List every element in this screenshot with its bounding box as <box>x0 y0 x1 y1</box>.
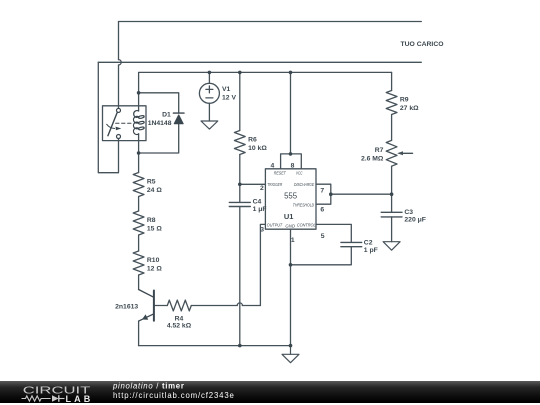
svg-text:15 Ω: 15 Ω <box>147 225 162 232</box>
label R8 value <box>147 217 162 233</box>
svg-text:GND: GND <box>285 224 295 229</box>
svg-text:TUO CARICO: TUO CARICO <box>400 41 443 48</box>
svg-text:10 kΩ: 10 kΩ <box>248 145 267 152</box>
svg-text:2.6 MΩ: 2.6 MΩ <box>361 156 384 163</box>
wire node to C3 <box>391 194 393 212</box>
wire C4 to bottom rail <box>239 207 241 346</box>
resistor R10 <box>133 251 144 275</box>
wire reset/vcc bracket <box>281 154 302 169</box>
svg-text:R6: R6 <box>248 136 257 143</box>
wire pin5 to C2 <box>316 224 351 242</box>
svg-text:7: 7 <box>320 187 324 194</box>
svg-text:R5: R5 <box>147 178 156 185</box>
resistor R4 <box>167 300 191 311</box>
label R5 value <box>147 178 162 194</box>
svg-text:220 μF: 220 μF <box>404 216 426 223</box>
footer banner <box>0 381 540 403</box>
wire top load line <box>119 21 422 23</box>
svg-text:pinolatino / timer: pinolatino / timer <box>112 381 185 390</box>
wire output pin3 riser <box>260 224 265 305</box>
svg-text:U1: U1 <box>284 212 294 221</box>
label C3 value <box>404 209 426 224</box>
wire VCC riser <box>290 72 292 153</box>
svg-text:R4: R4 <box>175 315 184 322</box>
svg-text:http://circuitlab.com/cf2343e: http://circuitlab.com/cf2343e <box>113 391 235 400</box>
label R9 value <box>400 96 419 112</box>
wire R8 to R10 <box>138 235 140 251</box>
svg-text:R7: R7 <box>375 147 384 154</box>
svg-text:1 pF: 1 pF <box>364 247 378 254</box>
transistor Q1 2n1613 <box>139 290 154 322</box>
potentiometer R7 <box>386 140 412 166</box>
wire R5 to R8 <box>138 197 140 212</box>
relay switch contacts <box>107 108 133 138</box>
ground for C3 <box>383 242 400 251</box>
label R10 value <box>147 257 162 273</box>
svg-text:12 Ω: 12 Ω <box>147 265 162 272</box>
svg-text:6: 6 <box>320 207 324 214</box>
wire base to R4 <box>154 305 167 307</box>
wire pin1 gnd column <box>290 229 292 345</box>
resistor R5 <box>133 173 144 197</box>
svg-text:1 μF: 1 μF <box>253 206 267 213</box>
wire R10 to collector <box>138 275 140 290</box>
wire R9 to R7 <box>391 115 393 141</box>
wire coil column through relay <box>138 93 140 173</box>
relay actuator arrowhead <box>116 127 122 131</box>
svg-text:1: 1 <box>291 237 295 244</box>
svg-text:LAB: LAB <box>66 394 94 403</box>
wire trigger node to C4 <box>239 184 241 202</box>
svg-text:2: 2 <box>260 185 264 192</box>
wire C2 to gnd column <box>291 247 352 265</box>
svg-text:4.52 kΩ: 4.52 kΩ <box>167 322 192 329</box>
label R4 value <box>167 315 192 329</box>
wire V1 branch <box>208 72 210 83</box>
wire left return loop <box>98 62 118 172</box>
wire emitter to bottom rail <box>138 321 140 346</box>
wire hop arc over C4 column <box>237 303 242 306</box>
svg-text:RESET: RESET <box>274 170 287 175</box>
wire R7 to node <box>391 166 393 194</box>
svg-text:D1: D1 <box>162 112 171 119</box>
wire diode bottom link <box>139 124 179 153</box>
wire +12V top rail <box>139 72 392 92</box>
transistor emitter arrowhead <box>142 314 148 319</box>
ground for V1 <box>201 121 218 129</box>
svg-text:4: 4 <box>271 163 275 170</box>
wire coil top to rail branch <box>139 93 179 113</box>
label U1 555 <box>284 191 298 220</box>
svg-text:R10: R10 <box>147 257 160 264</box>
svg-text:27 kΩ: 27 kΩ <box>400 105 419 112</box>
svg-text:C3: C3 <box>404 209 413 216</box>
label R7 value <box>361 147 384 163</box>
svg-text:R9: R9 <box>400 96 409 103</box>
wire switch top feed with hop over second line <box>118 22 120 109</box>
label C2 value <box>364 239 378 254</box>
svg-text:12 V: 12 V <box>222 95 236 102</box>
wire bottom ground rail <box>139 345 291 347</box>
CircuitLab logo diode glyph <box>52 395 59 402</box>
label C4 value <box>253 198 267 213</box>
svg-text:THRESHOLD: THRESHOLD <box>293 202 314 207</box>
node junction dots <box>137 71 394 348</box>
voltage source V1 <box>199 83 219 103</box>
svg-text:555: 555 <box>284 191 298 200</box>
wire V1 to ground <box>208 103 210 121</box>
resistor R8 <box>133 211 144 235</box>
wire C3 to ground <box>391 217 393 242</box>
wire R9 drop from rail <box>391 72 393 90</box>
relay coil L <box>133 111 144 135</box>
svg-text:3: 3 <box>260 227 264 234</box>
svg-text:VCC: VCC <box>296 170 303 175</box>
555 pin names <box>267 170 316 228</box>
wire hop arc <box>119 60 122 65</box>
relay K1 box <box>103 106 147 141</box>
resistor R6 <box>234 131 245 155</box>
ground main <box>282 346 299 363</box>
svg-text:V1: V1 <box>222 86 231 93</box>
svg-text:C4: C4 <box>253 198 262 205</box>
555 pin numbers <box>260 163 325 244</box>
resistor R9 <box>386 91 397 115</box>
op-amp U1 555 timer box <box>265 169 316 229</box>
capacitor C2 <box>341 242 362 246</box>
wire R6 branch from rail <box>239 72 241 130</box>
wire R4 to output column with hop <box>191 305 260 307</box>
svg-text:C2: C2 <box>364 239 373 246</box>
svg-text:24 Ω: 24 Ω <box>147 187 162 194</box>
svg-text:CONTROL: CONTROL <box>297 222 316 227</box>
capacitor C4 <box>229 202 250 206</box>
diode D1 <box>173 113 184 124</box>
svg-text:5: 5 <box>321 233 325 240</box>
potentiometer R7 wiper arrowhead <box>397 151 403 155</box>
wire R6 to trigger node <box>239 155 241 185</box>
wire pin7 pin6 join <box>316 184 331 204</box>
CircuitLab logo resistor glyph <box>22 396 51 401</box>
svg-text:TRIGGER: TRIGGER <box>267 182 282 187</box>
svg-text:1N4148: 1N4148 <box>148 120 172 127</box>
svg-text:2n1613: 2n1613 <box>115 303 138 310</box>
label R6 value <box>248 136 267 152</box>
svg-text:OUTPUT: OUTPUT <box>267 222 283 227</box>
wire threshold to R7 node <box>331 193 392 195</box>
svg-text:DISCHARGE: DISCHARGE <box>294 182 314 187</box>
wire second load line <box>98 61 421 63</box>
label V1 value <box>222 86 236 102</box>
wire trigger stub pin2 <box>240 183 266 185</box>
svg-text:8: 8 <box>291 163 295 170</box>
capacitor C3 <box>381 212 402 217</box>
label D1 value <box>148 112 172 128</box>
svg-text:R8: R8 <box>147 217 156 224</box>
